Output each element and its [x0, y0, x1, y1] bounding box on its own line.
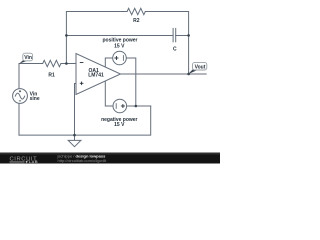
resistor R1	[43, 60, 61, 66]
wire bottom rail	[19, 106, 151, 135]
op-amp minus pin mark	[80, 62, 84, 64]
resistor R2	[127, 8, 145, 14]
junction node supplies	[135, 105, 138, 108]
positive power source circle	[113, 51, 127, 65]
wire Vin source bottom to rail	[18, 103, 20, 135]
negative power source circle	[113, 99, 127, 113]
ground	[68, 135, 81, 147]
svg-text:R1: R1	[48, 72, 55, 78]
op-amp OA1 triangle	[76, 54, 121, 95]
svg-text:15 V: 15 V	[114, 122, 125, 128]
wire negative supply pin	[105, 81, 113, 106]
op-amp plus pin mark	[80, 82, 84, 86]
wire positive supply pin	[105, 58, 112, 67]
wire R1 to inverting input	[61, 63, 76, 65]
wire non-inverting input to ground rail	[75, 84, 77, 136]
positive source plus sign	[114, 56, 118, 60]
wire top feedback right segment	[145, 12, 188, 75]
capacitor C	[173, 28, 176, 41]
junction node inverting input	[65, 62, 68, 65]
wire capacitor branch right	[176, 35, 189, 37]
svg-text:15 V: 15 V	[114, 43, 125, 49]
junction node feedback-cap left	[65, 34, 68, 37]
source Vin circle	[13, 89, 28, 104]
footer watermark bar	[0, 153, 220, 165]
node Vin flag	[19, 53, 33, 64]
svg-text:R2: R2	[133, 18, 140, 24]
sine source minus mark	[19, 100, 21, 102]
negative source minus bar	[115, 104, 117, 109]
svg-text:Vin: Vin	[24, 55, 32, 61]
wire positive supply right down	[126, 58, 136, 106]
svg-text:Vout: Vout	[195, 65, 206, 71]
svg-text:sine: sine	[30, 96, 40, 102]
wire negative supply right to corner	[127, 105, 151, 107]
junction node cap right	[187, 34, 190, 37]
junction node output	[187, 73, 190, 76]
positive source minus bar	[122, 56, 124, 61]
wire top feedback left segment	[66, 12, 127, 64]
wire output	[121, 73, 207, 75]
svg-text:C: C	[173, 46, 177, 52]
sine source plus mark	[19, 90, 21, 92]
svg-text:http://circuitlab.com/c5gcr8t: http://circuitlab.com/c5gcr8t	[58, 158, 108, 163]
svg-text:LAB: LAB	[29, 159, 38, 164]
wire input left	[19, 64, 43, 89]
junction node ground	[73, 134, 76, 137]
negative source plus sign	[121, 104, 125, 108]
logo underline rows	[10, 161, 25, 162]
svg-text:LM741: LM741	[88, 73, 104, 79]
source Vin sine glyph	[15, 93, 24, 99]
node Vout flag	[188, 62, 207, 74]
wire capacitor branch left	[66, 35, 173, 37]
